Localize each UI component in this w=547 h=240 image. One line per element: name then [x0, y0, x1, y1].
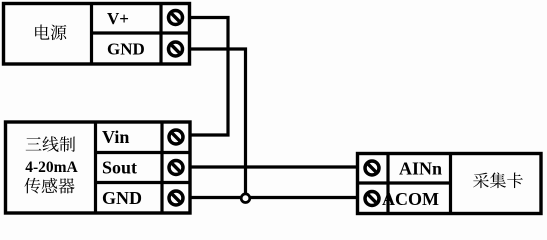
svg-text:4-20mA: 4-20mA [25, 159, 78, 176]
svg-text:Sout: Sout [102, 158, 137, 178]
svg-text:AINn: AINn [399, 159, 442, 179]
svg-text:ACOM: ACOM [382, 189, 439, 209]
svg-text:Vin: Vin [102, 127, 129, 147]
svg-text:GND: GND [107, 39, 145, 58]
svg-text:GND: GND [102, 188, 142, 208]
svg-text:V+: V+ [107, 9, 129, 28]
